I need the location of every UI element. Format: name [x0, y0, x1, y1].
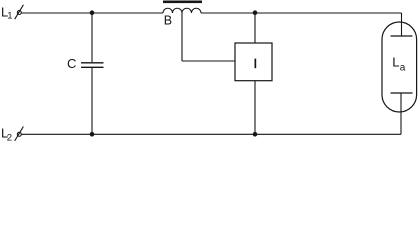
svg-text:a: a — [400, 62, 406, 73]
svg-text:B: B — [164, 13, 172, 27]
wire top: inductor B to node B — [201, 12, 255, 14]
svg-text:2: 2 — [7, 132, 12, 143]
label L2 — [1, 125, 12, 143]
inductor B core bar — [163, 1, 202, 4]
capacitor C top lead — [91, 13, 93, 62]
node C (junction bottom of I) — [253, 132, 258, 137]
terminal L1 — [15, 5, 24, 19]
wire: ignitor I bottom lead — [254, 81, 256, 135]
wire: lamp top lead — [401, 13, 403, 36]
wire top: node B to lamp corner — [255, 12, 402, 14]
wire bottom: node D to node C — [92, 133, 255, 135]
label I — [255, 59, 257, 69]
svg-text:C: C — [67, 56, 76, 71]
wire bottom: node C to lamp — [255, 133, 401, 135]
wire: ignitor I top lead — [254, 13, 256, 43]
capacitor C plates — [81, 63, 104, 68]
svg-text:L: L — [392, 54, 399, 69]
lamp La envelope — [382, 22, 417, 112]
capacitor C bottom lead — [91, 68, 93, 134]
lamp La top electrode — [391, 35, 413, 37]
terminal L2 — [15, 127, 24, 141]
wire bottom: terminal L2 to node D — [21, 133, 92, 135]
lamp La bottom electrode — [391, 92, 413, 94]
svg-text:1: 1 — [7, 11, 12, 22]
inductor B coil — [163, 8, 201, 13]
label La — [392, 54, 406, 73]
label L1 — [1, 4, 13, 21]
node D (junction bottom of C) — [90, 132, 95, 137]
wire top: node A to inductor B — [92, 12, 163, 14]
node B (junction top of I) — [253, 10, 258, 15]
wire: tap to ignitor I left — [182, 60, 235, 62]
wire: inductor tap down — [181, 13, 183, 61]
wire: lamp bottom lead — [400, 93, 402, 134]
node A (junction top of C) — [90, 10, 95, 15]
ignitor U1 box — [235, 43, 272, 81]
wire top: terminal L1 to node A — [21, 12, 92, 14]
